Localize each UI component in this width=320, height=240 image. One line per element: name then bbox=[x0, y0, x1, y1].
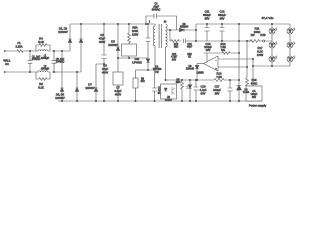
svg-text:1N4007: 1N4007 bbox=[55, 96, 65, 100]
wire D3 column bbox=[61, 51, 63, 101]
wire D1 column bbox=[69, 24, 71, 51]
optocoupler U2 box bbox=[161, 84, 177, 99]
svg-text:100µF: 100µF bbox=[213, 88, 221, 92]
diode D8 bbox=[195, 65, 199, 68]
node bottom rail joints bbox=[61, 100, 62, 101]
node opto drive fb bbox=[189, 79, 190, 80]
snubber loop primary bbox=[146, 14, 177, 31]
svg-text:1: 1 bbox=[149, 22, 151, 24]
node R8 bbox=[181, 79, 182, 80]
svg-text:TL431: TL431 bbox=[243, 92, 250, 94]
node C7 bottom bbox=[117, 100, 118, 101]
wire R9 tap bbox=[136, 69, 149, 71]
node TL431 fb bbox=[238, 79, 239, 80]
capacitor C5 bulk bbox=[101, 24, 106, 101]
svg-text:Power supply: Power supply bbox=[249, 104, 267, 108]
node C5 D7 bbox=[103, 63, 104, 64]
svg-text:16V: 16V bbox=[206, 48, 211, 52]
svg-text:600VAC: 600VAC bbox=[152, 9, 161, 12]
svg-text:R15: R15 bbox=[187, 54, 192, 56]
svg-text:47µF: 47µF bbox=[102, 67, 109, 71]
svg-text:.01µF: .01µF bbox=[153, 7, 160, 9]
wire D4 column bbox=[76, 72, 78, 101]
svg-text:400V: 400V bbox=[102, 70, 108, 74]
node R5A rail bbox=[128, 23, 129, 24]
svg-text:1W: 1W bbox=[250, 33, 254, 37]
node C5 bottom bbox=[103, 100, 104, 101]
diode D4 bbox=[75, 88, 79, 91]
svg-text:LM358: LM358 bbox=[196, 73, 204, 75]
wire opto drive column bbox=[189, 80, 191, 101]
svg-text:R12: R12 bbox=[174, 44, 179, 46]
node C8 rail bbox=[147, 23, 148, 24]
node C1 top bbox=[29, 50, 30, 51]
wire D5 column bbox=[117, 24, 119, 101]
optocoupler transistor bbox=[172, 87, 175, 95]
svg-text:275VAC: 275VAC bbox=[32, 58, 41, 61]
input terminal top bbox=[4, 50, 5, 51]
svg-text:D9: D9 bbox=[189, 66, 193, 68]
svg-text:100µF: 100µF bbox=[251, 94, 258, 96]
svg-text:47pF: 47pF bbox=[187, 47, 193, 49]
node drain C6 bbox=[128, 57, 129, 58]
svg-text:C16: C16 bbox=[201, 85, 206, 89]
node D4 top bbox=[76, 71, 77, 72]
svg-text:100K: 100K bbox=[132, 29, 138, 33]
svg-text:C17: C17 bbox=[215, 85, 220, 89]
node return LED bbox=[252, 65, 253, 66]
transformer T1 primary winding bbox=[153, 26, 155, 47]
wire D2 column bbox=[80, 24, 82, 72]
resistor R8 bbox=[181, 80, 184, 101]
wire fb line bbox=[204, 52, 240, 54]
svg-text:L1: L1 bbox=[44, 56, 47, 58]
wire D8 column bbox=[196, 64, 198, 81]
node sense C12 bbox=[221, 40, 222, 41]
wire LED return bbox=[253, 65, 290, 67]
svg-text:TNY266: TNY266 bbox=[153, 69, 162, 71]
node C15 bottom bbox=[154, 100, 155, 101]
svg-text:U1: U1 bbox=[156, 67, 160, 69]
svg-text:R17: R17 bbox=[258, 46, 263, 50]
svg-text:D6: D6 bbox=[183, 24, 187, 26]
input terminal bottom bbox=[4, 71, 5, 72]
svg-text:400V: 400V bbox=[99, 40, 105, 44]
resistor R14 bbox=[214, 79, 224, 82]
capacitor C1 bbox=[28, 51, 33, 72]
svg-text:C12: C12 bbox=[220, 10, 225, 14]
wire opamp fb riser bbox=[206, 53, 208, 62]
wire primary bottom lead bbox=[154, 47, 156, 70]
svg-text:4.7µF: 4.7µF bbox=[200, 88, 207, 92]
svg-text:1N4007: 1N4007 bbox=[85, 86, 95, 90]
diode D7 bbox=[94, 88, 98, 91]
node C5 rail bbox=[103, 23, 104, 24]
svg-text:400V: 400V bbox=[115, 92, 121, 96]
LED DS1 bbox=[269, 27, 277, 34]
node C12 top bbox=[221, 23, 222, 24]
TL431 U4 bbox=[237, 86, 242, 90]
svg-text:C12: C12 bbox=[172, 54, 177, 56]
wire R9 leads bbox=[135, 70, 137, 101]
node drain D5 bbox=[117, 57, 118, 58]
node D5 rail bbox=[117, 23, 118, 24]
diode D3 bbox=[60, 88, 64, 91]
node C14 bbox=[195, 79, 196, 80]
svg-text:1/4W: 1/4W bbox=[257, 53, 264, 57]
module box bbox=[246, 86, 262, 101]
node D2 rail bbox=[80, 23, 81, 24]
wire TL431 column bbox=[238, 24, 240, 101]
svg-text:5.1K: 5.1K bbox=[257, 49, 263, 53]
node riser mid bbox=[195, 29, 196, 30]
node C2 top bbox=[53, 50, 54, 51]
svg-text:PN: PN bbox=[155, 72, 159, 74]
svg-text:35V: 35V bbox=[205, 16, 210, 20]
svg-text:1000µH: 1000µH bbox=[41, 69, 50, 71]
svg-text:WALL: WALL bbox=[3, 58, 11, 62]
resistor R9 bbox=[133, 78, 138, 88]
op-amp U3 bbox=[204, 56, 219, 71]
fuse F1 bbox=[17, 50, 23, 53]
node C18 bbox=[229, 79, 230, 80]
wire opamp out bbox=[197, 63, 204, 65]
svg-text:680µF: 680µF bbox=[203, 13, 211, 17]
svg-text:35V: 35V bbox=[252, 97, 257, 99]
svg-text:R11: R11 bbox=[255, 27, 260, 31]
svg-text:C9: C9 bbox=[155, 4, 159, 6]
node LED col1 rail bbox=[271, 23, 272, 24]
svg-text:R7B: R7B bbox=[260, 33, 265, 37]
node R9 bottom bbox=[135, 100, 136, 101]
svg-text:51Ω: 51Ω bbox=[176, 82, 181, 84]
node D8 fb bbox=[196, 79, 197, 80]
diode D6 bbox=[180, 28, 185, 32]
svg-text:C10: C10 bbox=[187, 44, 192, 46]
node TL431 sense bbox=[238, 40, 239, 41]
wire feedback rail bbox=[166, 79, 240, 81]
node sense R17 bbox=[246, 40, 247, 41]
svg-text:R16: R16 bbox=[252, 78, 257, 82]
node sense mid bbox=[263, 40, 265, 42]
svg-text:1N4148: 1N4148 bbox=[186, 69, 195, 71]
node fb sec lead bbox=[165, 79, 166, 80]
wire opamp in2 bbox=[218, 66, 247, 68]
resistor R5 parallel with L2 bbox=[36, 72, 50, 80]
svg-text:PC817: PC817 bbox=[165, 100, 173, 102]
wire D11 to drain joint bbox=[148, 62, 155, 70]
svg-text:C7: C7 bbox=[116, 86, 120, 90]
capacitor C6 box bbox=[122, 44, 137, 56]
svg-text:10Ω: 10Ω bbox=[174, 47, 179, 49]
resistor R11 bbox=[247, 40, 262, 43]
wire LED column 2 bbox=[289, 24, 291, 66]
node in2 R17 bbox=[246, 66, 247, 67]
svg-text:47Ω: 47Ω bbox=[140, 81, 145, 83]
svg-text:D11: D11 bbox=[135, 57, 140, 61]
LED DS4 bbox=[287, 41, 295, 48]
svg-text:R5: R5 bbox=[39, 82, 43, 86]
node R9 tap bbox=[147, 69, 148, 70]
svg-text:16V: 16V bbox=[172, 59, 177, 61]
svg-text:100Ω: 100Ω bbox=[254, 30, 261, 34]
wire output riser bbox=[195, 24, 197, 41]
LED DS3 bbox=[269, 41, 277, 48]
node D3 top bbox=[61, 50, 62, 51]
capacitor C15 bbox=[152, 70, 157, 101]
LED DS5 bbox=[269, 55, 277, 62]
wire sense line bbox=[170, 30, 272, 43]
svg-text:1N4007: 1N4007 bbox=[58, 30, 68, 34]
svg-text:1/2W: 1/2W bbox=[132, 33, 139, 37]
svg-text:50V: 50V bbox=[201, 91, 206, 95]
capacitor C11 bbox=[204, 24, 209, 41]
wire AC line bottom bbox=[6, 71, 81, 73]
LED DS6 bbox=[287, 55, 295, 62]
transformer T1 core bbox=[159, 24, 161, 48]
svg-text:1000µH: 1000µH bbox=[41, 58, 50, 60]
capacitor C18 bbox=[227, 80, 232, 101]
capacitor C8 column bbox=[146, 24, 151, 58]
svg-text:14: 14 bbox=[164, 22, 167, 24]
diode D1 bbox=[68, 39, 72, 42]
wire D7 column bbox=[96, 64, 104, 101]
svg-text:604Ω: 604Ω bbox=[251, 81, 258, 85]
svg-text:275VAC: 275VAC bbox=[56, 61, 65, 64]
svg-text:F1: F1 bbox=[17, 41, 21, 45]
diode D2 bbox=[79, 39, 83, 42]
svg-text:AC: AC bbox=[5, 62, 9, 66]
optocoupler LED bbox=[164, 88, 167, 91]
wire bottom rail bbox=[58, 100, 262, 102]
wire C6 to drain bbox=[128, 56, 130, 58]
svg-text:3.15A: 3.15A bbox=[15, 44, 22, 48]
capacitor C14 bbox=[194, 80, 199, 101]
wire output top rail bbox=[196, 23, 290, 25]
diode D5 bbox=[116, 47, 120, 50]
svg-text:L2: L2 bbox=[44, 66, 47, 68]
node C1 bottom bbox=[29, 71, 30, 72]
resistor R17 column bbox=[246, 41, 249, 88]
wire AC line top bbox=[6, 50, 70, 52]
svg-text:680µF: 680µF bbox=[218, 13, 226, 17]
capacitor C2 bbox=[52, 51, 57, 72]
node riser bottom bbox=[195, 40, 196, 41]
svg-text:5.1K: 5.1K bbox=[38, 85, 44, 89]
wire opamp in1 bbox=[218, 58, 253, 60]
svg-text:47µF: 47µF bbox=[99, 36, 106, 40]
svg-text:R5A: R5A bbox=[132, 26, 137, 30]
svg-text:SB5100: SB5100 bbox=[180, 27, 189, 29]
node fb tl bbox=[238, 52, 239, 53]
svg-text:4.7µF: 4.7µF bbox=[171, 57, 178, 59]
LED DS2 bbox=[287, 27, 295, 34]
diode D11 bbox=[146, 59, 150, 62]
wire return column bbox=[252, 59, 254, 86]
wire R5A column bbox=[128, 24, 131, 44]
node LED return col1 bbox=[271, 65, 272, 66]
transformer T1 secondary winding bbox=[166, 24, 168, 47]
svg-text:35V: 35V bbox=[215, 91, 220, 95]
svg-text:6.8µF: 6.8µF bbox=[115, 89, 122, 93]
capacitor C12 bbox=[219, 24, 224, 41]
wire secondary output bbox=[166, 29, 197, 31]
node return input bbox=[252, 58, 253, 59]
resistor R4 parallel with L1 bbox=[36, 44, 50, 51]
wire drain link bbox=[118, 57, 148, 59]
inductor L2 bbox=[36, 71, 50, 72]
node TL431 rail bbox=[238, 23, 239, 24]
node sense left bbox=[169, 29, 170, 30]
capacitor C7 box bbox=[113, 72, 123, 85]
svg-text:UF4005: UF4005 bbox=[132, 60, 142, 64]
svg-text:1K: 1K bbox=[188, 57, 191, 59]
wire LED column 1 bbox=[271, 24, 273, 66]
node C2 bottom bbox=[53, 71, 54, 72]
inductor L1 bbox=[36, 50, 50, 51]
svg-text:R9: R9 bbox=[141, 79, 145, 81]
resistor R13 bbox=[222, 52, 230, 55]
LED opto drive bbox=[186, 85, 191, 89]
svg-text:R13: R13 bbox=[217, 72, 222, 76]
svg-text:C11: C11 bbox=[205, 10, 210, 14]
svg-text:1%: 1% bbox=[221, 48, 225, 52]
wire HV+ primary rail bbox=[70, 24, 155, 26]
svg-text:35V: 35V bbox=[220, 16, 225, 20]
svg-text:97,4 Vdc: 97,4 Vdc bbox=[262, 16, 274, 20]
wire secondary return lead bbox=[165, 47, 167, 80]
node C11 top bbox=[206, 23, 207, 24]
node snubber left bbox=[145, 23, 146, 24]
svg-text:5.1K: 5.1K bbox=[38, 40, 44, 44]
svg-text:1N4007: 1N4007 bbox=[108, 43, 118, 47]
svg-text:D5: D5 bbox=[111, 40, 115, 44]
svg-text:CA: CA bbox=[252, 90, 256, 93]
svg-text:C5: C5 bbox=[100, 33, 104, 37]
